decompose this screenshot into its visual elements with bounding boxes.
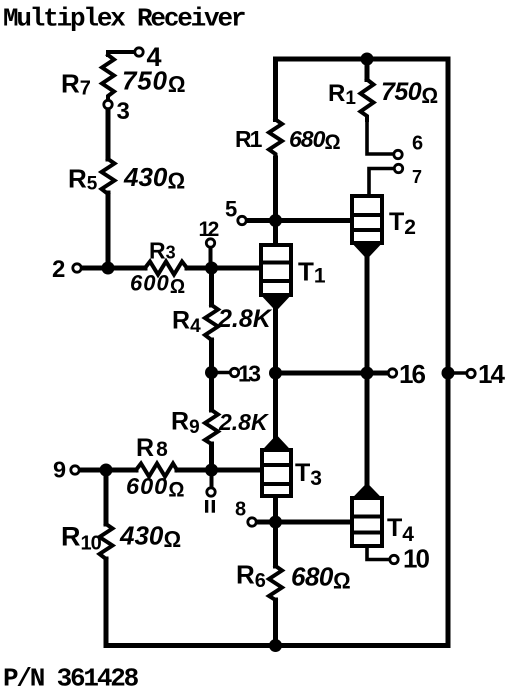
svg-text:6: 6 [412,133,423,155]
svg-text:430Ω: 430Ω [119,521,181,553]
svg-text:680Ω: 680Ω [289,126,340,154]
terminal circle 13 [230,368,238,376]
wire top bus to R1 680 [273,59,278,120]
junction node 14 rail [442,367,455,380]
svg-text:T3: T3 [295,459,322,490]
svg-text:9: 9 [53,457,66,483]
transistor T2 [352,196,382,259]
wire node 16 row [276,371,389,376]
wire R4 to node 13 [209,340,214,373]
terminal circle 8 [248,518,256,526]
svg-text:R8: R8 [136,434,168,462]
resistor R7 zigzag [102,55,114,101]
resistor R6 zigzag [269,566,282,600]
svg-text:430Ω: 430Ω [123,162,185,194]
wire terminal 2 row [81,266,146,271]
resistor R1 750 zigzag [361,80,374,121]
junction node 2 at R5 [102,262,115,275]
wire R3 to T1 base [187,266,261,271]
svg-text:Multiplex Receiver: Multiplex Receiver [3,4,245,34]
wire node 13 stub [212,371,231,375]
svg-text:R6: R6 [236,560,266,593]
svg-text:R9: R9 [171,408,200,439]
svg-text:T1: T1 [298,257,326,288]
terminal circle 3 [104,100,112,108]
junction R8 R9 [205,464,218,477]
terminal circle 14 [467,369,475,377]
svg-text:R7: R7 [61,69,91,100]
wire T3 bottom through node 8 to R6 [273,496,278,566]
svg-text:R10: R10 [61,522,102,555]
transistor T3 [262,436,291,497]
wire bottom bus [106,643,448,648]
label terminal 11 [205,500,215,513]
svg-text:680Ω: 680Ω [291,562,350,594]
wire node 11 stem [210,470,214,488]
transistor T4 [352,484,382,547]
resistor R9 zigzag [205,410,218,446]
svg-text:R4: R4 [172,307,201,338]
terminal circle 2 [73,264,81,272]
svg-text:2: 2 [52,256,65,283]
resistor R3 zigzag [145,262,187,275]
wire R9 to node 9 row [209,444,214,470]
terminal circle 11 [207,488,215,496]
svg-text:P/N 361428: P/N 361428 [3,664,139,693]
wire R1 680 to T1 top [273,158,278,245]
wire terminal 5 row to T2 base [246,218,353,223]
svg-text:2.8K: 2.8K [218,409,269,435]
svg-text:8: 8 [235,499,246,521]
wire node 13 to R9 [209,373,214,411]
terminal circle 6 [394,150,402,158]
svg-text:T4: T4 [387,514,414,546]
junction R3 R4 T1 base [205,262,218,275]
terminal circle 10 [390,555,398,563]
svg-text:12: 12 [199,218,219,241]
wire node 16 row to T4 [365,373,370,484]
wire node 3 to R5 [106,109,111,160]
svg-text:5: 5 [225,197,237,222]
junction bottom bus [269,639,282,652]
wire node 12 stem [209,248,213,269]
svg-text:10: 10 [403,544,429,574]
wire T2 emitter to node 16 row [365,258,370,373]
wire node 9 to R10 [104,470,109,524]
svg-text:750Ω: 750Ω [122,66,186,98]
junction node 13 [205,366,218,379]
resistor R8 zigzag [136,464,177,477]
wire T1 emitter to T3 [273,310,278,436]
transistor T1 [261,245,291,311]
wire node to R4 [209,268,214,305]
wire right rail [446,59,451,646]
svg-text:R5: R5 [68,164,98,195]
wire top bus [276,57,449,62]
wire terminal 4 stub into R7 [108,52,135,55]
svg-text:16: 16 [399,359,425,389]
terminal circle 12 [206,239,214,247]
resistor R4 zigzag [205,305,218,340]
wire top bus to R1 750 [365,59,370,80]
svg-text:R1: R1 [328,80,356,109]
svg-text:R1: R1 [235,126,263,152]
resistor R5 zigzag [102,159,115,194]
wire R1 750 to terminal 6 [367,120,394,154]
terminal circle 4 [135,48,143,56]
wire R5 to node 2 row [106,193,111,268]
wire T4 bottom to terminal 10 [367,546,390,560]
resistor R10 zigzag [100,524,113,559]
terminal circle 9 [71,466,79,474]
wire terminal 9 row [79,468,137,473]
svg-text:T2: T2 [389,208,416,239]
svg-text:2.8K: 2.8K [217,305,273,333]
svg-text:750Ω: 750Ω [381,78,438,108]
wire node 8 row to T4 base [256,520,353,525]
svg-text:14: 14 [478,359,505,389]
svg-text:13: 13 [238,361,260,387]
resistor R1 680 zigzag [269,120,282,159]
junction top bus [361,53,374,66]
terminal circle 5 [238,216,246,224]
junction node 16 left [269,367,282,380]
wire R6 to bottom bus [273,600,278,646]
junction node 9 at R10 [100,464,113,477]
junction node 16 mid [361,367,374,380]
svg-text:600Ω: 600Ω [130,271,186,299]
junction node 8 [269,516,282,529]
wire terminal 7 to T2 top [369,169,395,197]
svg-text:R3: R3 [149,238,176,264]
terminal circle 16 [388,369,396,377]
wire R10 to bottom bus [104,559,109,646]
svg-text:600Ω: 600Ω [126,473,185,502]
junction node 5 row [269,214,282,227]
svg-text:3: 3 [117,98,130,125]
terminal circle 7 [394,164,402,172]
wire terminal 14 stub [448,371,467,375]
wire R8 to T3 base [177,468,262,473]
svg-text:7: 7 [412,167,422,187]
